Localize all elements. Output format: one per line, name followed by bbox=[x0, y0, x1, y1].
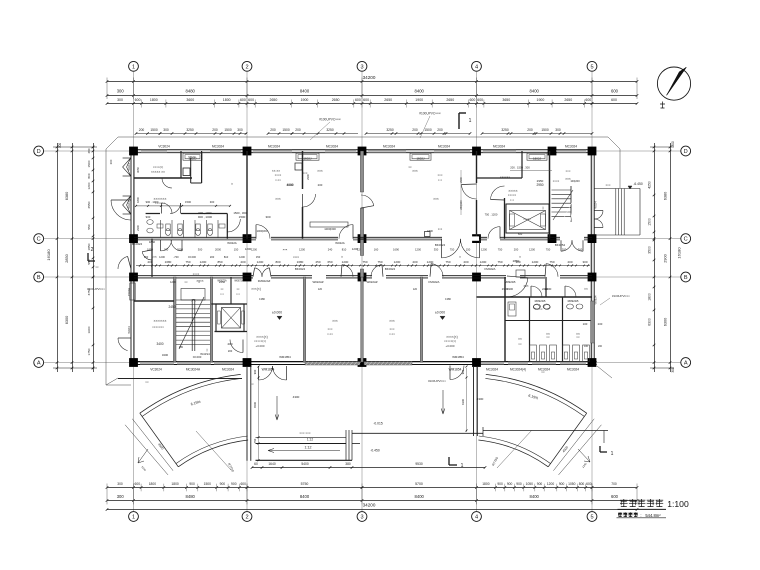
svg-text:××××: ×××× bbox=[275, 173, 282, 177]
svg-text:×.×: ×.× bbox=[236, 292, 240, 296]
svg-text:1500 , 300: 1500 , 300 bbox=[233, 211, 247, 215]
wc fixtures north-left bbox=[166, 224, 170, 231]
axis circle 5 bottom bbox=[587, 512, 597, 522]
svg-text:600: 600 bbox=[477, 98, 483, 102]
svg-text:×××××××: ××××××× bbox=[153, 319, 166, 323]
axis circle 2 top bbox=[242, 61, 252, 71]
wall x201 bbox=[201, 151, 203, 183]
svg-text:-0.450: -0.450 bbox=[370, 448, 380, 452]
svg-text:×××: ××× bbox=[389, 319, 395, 323]
svg-text:600: 600 bbox=[240, 98, 246, 102]
svg-text:1750: 1750 bbox=[87, 348, 91, 355]
svg-text:800: 800 bbox=[87, 173, 91, 178]
column (247,362) bbox=[243, 358, 252, 367]
svg-text:-6.450: -6.450 bbox=[633, 182, 643, 186]
left wall window 1502A bbox=[130, 283, 135, 300]
equipment washroom bbox=[516, 270, 525, 277]
door x476 wall bbox=[462, 185, 477, 200]
door left wall lower1 bbox=[118, 256, 128, 269]
column (592,239) bbox=[588, 234, 597, 243]
door B-wall room2 bbox=[371, 265, 382, 277]
svg-text:1000|300: 1000|300 bbox=[257, 229, 268, 233]
hatched sill wall A axis2-3 bbox=[305, 362, 360, 365]
svg-text:1380: 1380 bbox=[259, 297, 265, 301]
svg-text:1:12: 1:12 bbox=[307, 438, 313, 442]
svg-text:2850: 2850 bbox=[65, 254, 69, 262]
svg-text:MC3024: MC3024 bbox=[486, 367, 498, 371]
equipment box room2 bbox=[295, 163, 302, 170]
svg-text:2: 2 bbox=[245, 515, 248, 521]
svg-text:±0.000: ±0.000 bbox=[272, 311, 282, 315]
svg-text:900 , 1000: 900 , 1000 bbox=[198, 211, 212, 215]
svg-text:2550: 2550 bbox=[87, 201, 91, 208]
wall x546 bbox=[545, 277, 547, 297]
louvre box 1502J bbox=[183, 153, 202, 160]
svg-text:W024: W024 bbox=[127, 201, 131, 209]
axis circle A left bbox=[34, 358, 44, 368]
svg-text:W0872A: W0872A bbox=[234, 280, 244, 283]
svg-text:D: D bbox=[684, 149, 688, 155]
svg-text:1500: 1500 bbox=[648, 218, 652, 226]
svg-text:200: 200 bbox=[463, 260, 468, 264]
podium meeting room bbox=[310, 222, 348, 227]
svg-text:W022A#: W022A# bbox=[312, 280, 323, 284]
svg-text:××: ×× bbox=[250, 382, 254, 386]
svg-text:750: 750 bbox=[450, 248, 455, 252]
level +0.000 right bbox=[438, 316, 443, 320]
svg-text:1050: 1050 bbox=[526, 482, 534, 486]
svg-text:100: 100 bbox=[584, 345, 589, 348]
south door axis2-3 leaf1 bbox=[259, 366, 273, 380]
svg-text:×××: ××× bbox=[283, 248, 288, 252]
svg-text:3250: 3250 bbox=[326, 128, 334, 132]
svg-text::: : bbox=[640, 513, 641, 518]
svg-text:W022A: W022A bbox=[227, 241, 237, 245]
svg-text:300: 300 bbox=[109, 159, 113, 164]
title underline bbox=[618, 508, 667, 510]
svg-text:WM1854: WM1854 bbox=[449, 367, 462, 371]
svg-text:4: 4 bbox=[475, 64, 478, 70]
column (592,151) bbox=[588, 147, 597, 156]
svg-text:60: 60 bbox=[254, 462, 258, 466]
svg-text:4000: 4000 bbox=[287, 183, 294, 187]
svg-text:3400: 3400 bbox=[162, 353, 169, 357]
wc basins left bbox=[147, 220, 153, 225]
shaft wall x190 bbox=[190, 158, 192, 183]
svg-text:300: 300 bbox=[117, 98, 123, 102]
svg-text:MC3024: MC3024 bbox=[565, 145, 577, 149]
svg-text:×××: ××× bbox=[389, 327, 394, 331]
svg-text:600: 600 bbox=[240, 482, 246, 486]
axis circle 1 bottom bbox=[129, 512, 139, 522]
svg-text:380: 380 bbox=[345, 462, 351, 466]
ramp 1:12 bbox=[256, 436, 347, 438]
svg-text:4300: 4300 bbox=[293, 395, 300, 399]
svg-text:1502J: 1502J bbox=[533, 156, 541, 160]
bay1 corridor door leaf1 bbox=[161, 240, 172, 251]
svg-text:×.×: ×.× bbox=[220, 292, 224, 296]
east door leaf1 bbox=[595, 211, 604, 220]
svg-text:BK0324: BK0324 bbox=[435, 243, 446, 247]
svg-text:#100UPVC××: #100UPVC×× bbox=[612, 294, 630, 298]
svg-text:1200: 1200 bbox=[481, 248, 487, 252]
svg-text:1200: 1200 bbox=[394, 260, 401, 264]
svg-text:××: ×× bbox=[145, 380, 149, 384]
svg-text:D: D bbox=[37, 149, 41, 155]
svg-text:16180: 16180 bbox=[677, 247, 682, 259]
svg-text:2200: 2200 bbox=[542, 287, 548, 291]
column (362,362) bbox=[358, 358, 367, 367]
svg-text:W022A#: W022A# bbox=[366, 280, 377, 284]
svg-text:350: 350 bbox=[434, 248, 439, 252]
svg-text:1800: 1800 bbox=[427, 229, 433, 233]
svg-text:5750: 5750 bbox=[301, 482, 309, 486]
stair bay door leaf2 bbox=[572, 240, 583, 251]
door B-wall room3 bbox=[431, 264, 443, 277]
door left wall wc bbox=[111, 200, 131, 220]
wall x302 upper bbox=[302, 151, 304, 189]
svg-text:BK0324: BK0324 bbox=[295, 267, 306, 271]
svg-text:××× ×××: ××× ××× bbox=[299, 431, 311, 435]
svg-text:FM022A: FM022A bbox=[485, 267, 496, 271]
svg-text:1200: 1200 bbox=[480, 260, 487, 264]
svg-text:2450: 2450 bbox=[219, 280, 226, 284]
axis circle 4 top bbox=[472, 61, 482, 71]
svg-text:120: 120 bbox=[413, 288, 418, 291]
column (247,239) bbox=[243, 234, 252, 243]
svg-text:#100UPVC×××: #100UPVC××× bbox=[319, 118, 341, 122]
door x302 wall bbox=[303, 194, 316, 207]
svg-text:2650: 2650 bbox=[270, 98, 278, 102]
wall x231 small rooms bbox=[230, 277, 232, 304]
bay1 corridor door leaf2 bbox=[171, 240, 182, 251]
svg-text:1: 1 bbox=[132, 64, 135, 70]
svg-text:2950: 2950 bbox=[536, 183, 543, 187]
svg-text:900 , 1000: 900 , 1000 bbox=[198, 215, 213, 219]
section mark 2 left bbox=[87, 253, 89, 261]
section mark 1 top bbox=[458, 113, 460, 129]
door B-wall toilet bbox=[546, 264, 558, 277]
top secondary dimension row bbox=[136, 133, 247, 135]
svg-text:1690: 1690 bbox=[393, 248, 399, 252]
hatched wall x421 bbox=[420, 277, 423, 362]
stair bay wall x549 bbox=[549, 151, 551, 239]
north needle bbox=[667, 67, 687, 95]
porch right dim column bbox=[466, 368, 468, 432]
axis circle B left bbox=[34, 272, 44, 282]
drain arrows bbox=[275, 396, 279, 420]
wall x562 bbox=[562, 297, 564, 362]
svg-text:200: 200 bbox=[437, 128, 443, 132]
svg-text:8400: 8400 bbox=[530, 494, 540, 499]
svg-text:×: × bbox=[459, 255, 461, 259]
south door axis2-3 leaf2 bbox=[273, 366, 287, 380]
svg-text:650: 650 bbox=[327, 260, 332, 264]
axis circle 5 top bbox=[587, 61, 597, 71]
svg-text:6380: 6380 bbox=[664, 192, 668, 200]
svg-text:1500: 1500 bbox=[541, 128, 549, 132]
svg-text:1500: 1500 bbox=[424, 128, 432, 132]
svg-text:××: ×× bbox=[518, 342, 522, 346]
door below elevator bbox=[230, 340, 243, 353]
svg-text:600: 600 bbox=[363, 98, 369, 102]
equipment box hall bbox=[425, 232, 431, 237]
small room door bbox=[142, 252, 152, 260]
svg-text:×××: ××× bbox=[537, 307, 542, 311]
left wall casement window D-C1 bbox=[123, 158, 131, 176]
svg-text:600: 600 bbox=[135, 98, 141, 102]
svg-text:750: 750 bbox=[546, 248, 551, 252]
svg-text:×××: ××× bbox=[605, 183, 610, 187]
svg-text:6300: 6300 bbox=[65, 316, 69, 324]
svg-text:××××× ××: ××××× ×× bbox=[151, 170, 165, 174]
toilet wall y297 bbox=[477, 296, 593, 298]
svg-text:300: 300 bbox=[582, 260, 587, 264]
svg-text:600: 600 bbox=[611, 98, 617, 102]
svg-text:1640: 1640 bbox=[268, 462, 276, 466]
level mark -6.450 bbox=[628, 186, 632, 189]
svg-text:200: 200 bbox=[412, 128, 418, 132]
column (476,362) bbox=[472, 358, 481, 367]
svg-text:600: 600 bbox=[585, 98, 591, 102]
column (134,277) bbox=[129, 273, 138, 282]
svg-text:750: 750 bbox=[377, 260, 382, 264]
wc cubicle dividers top-left bbox=[160, 220, 162, 238]
column (247,277) bbox=[243, 273, 252, 282]
svg-text:480: 480 bbox=[87, 148, 91, 153]
svg-text:800: 800 bbox=[275, 260, 280, 264]
shaft wall y183 bbox=[191, 182, 202, 184]
R7750 leader left bbox=[196, 431, 231, 470]
svg-text:MC3024: MC3024 bbox=[567, 367, 579, 371]
svg-text:×××: ××× bbox=[317, 169, 323, 173]
svg-text:8400: 8400 bbox=[415, 89, 425, 94]
svg-text:+0.000: +0.000 bbox=[446, 344, 455, 348]
svg-text:1200: 1200 bbox=[415, 248, 421, 252]
svg-text:×××: ××× bbox=[433, 197, 439, 201]
wash basins bbox=[534, 304, 541, 309]
svg-text:120: 120 bbox=[318, 288, 323, 291]
svg-text:3250: 3250 bbox=[501, 128, 509, 132]
column (362,239) bbox=[358, 234, 367, 243]
svg-text:1: 1 bbox=[611, 451, 614, 457]
door x504 wall bbox=[491, 186, 505, 200]
svg-text:3500: 3500 bbox=[648, 246, 652, 254]
corridor crossing wall axis3 bbox=[360, 240, 363, 256]
svg-text:1200: 1200 bbox=[170, 280, 176, 284]
svg-text:2300: 2300 bbox=[136, 225, 140, 231]
svg-text:600: 600 bbox=[586, 482, 592, 486]
svg-text:200: 200 bbox=[270, 128, 276, 132]
svg-text:M0921B: M0921B bbox=[535, 299, 546, 303]
svg-text:750: 750 bbox=[253, 438, 257, 443]
left curved terrace bbox=[140, 374, 241, 413]
svg-text:×××××: ××××× bbox=[523, 217, 531, 221]
svg-text:3650: 3650 bbox=[502, 98, 510, 102]
left dimension columns bbox=[57, 143, 59, 372]
svg-text:300: 300 bbox=[237, 128, 243, 132]
svg-text:MC3024: MC3024 bbox=[326, 145, 338, 149]
svg-text:BK0324: BK0324 bbox=[385, 267, 396, 271]
wall y178 left rooms bbox=[134, 177, 192, 179]
svg-text:×: × bbox=[519, 255, 521, 259]
svg-text:M0921B: M0921B bbox=[568, 299, 579, 303]
svg-text:×g××: ×g×× bbox=[196, 279, 203, 283]
axis circle 3 top bbox=[357, 61, 367, 71]
porch right wall bbox=[473, 366, 475, 436]
hatch strokes bbox=[306, 362, 309, 365]
svg-text:×.××: ×.×× bbox=[275, 178, 281, 182]
svg-text:×××××(×): ×××××(×) bbox=[254, 339, 266, 343]
column (134,151) bbox=[129, 147, 138, 156]
svg-text:900: 900 bbox=[559, 482, 565, 486]
left wall casement window D-C2 bbox=[123, 196, 131, 214]
svg-text:700: 700 bbox=[611, 482, 617, 486]
svg-text:1680: 1680 bbox=[165, 260, 172, 264]
porch dim column bbox=[258, 368, 260, 460]
svg-text:1200: 1200 bbox=[251, 248, 257, 252]
svg-text:1000|300: 1000|300 bbox=[324, 227, 336, 231]
ramp arrow 1:12 bbox=[268, 449, 340, 453]
svg-text:16180: 16180 bbox=[46, 249, 51, 261]
svg-text:4250: 4250 bbox=[648, 181, 652, 189]
svg-text:#100UPVC××: #100UPVC×× bbox=[87, 287, 105, 291]
wall x302 lower bbox=[302, 207, 304, 239]
axis circle C right bbox=[681, 234, 691, 244]
wc dim line bbox=[136, 205, 230, 207]
svg-text:1380: 1380 bbox=[445, 297, 451, 301]
svg-text:3400: 3400 bbox=[156, 342, 163, 346]
svg-text:2850: 2850 bbox=[513, 259, 520, 263]
exterior wall bottom bbox=[131, 361, 597, 363]
column (476,151) bbox=[472, 147, 481, 156]
svg-text:200: 200 bbox=[240, 260, 245, 264]
svg-text:900: 900 bbox=[507, 482, 513, 486]
svg-text:1800: 1800 bbox=[482, 482, 490, 486]
svg-text:750: 750 bbox=[549, 260, 554, 264]
svg-text:××: ×× bbox=[584, 287, 588, 291]
svg-text:×.××: ×.×× bbox=[389, 332, 395, 336]
svg-text:FM022A#: FM022A# bbox=[258, 279, 271, 283]
svg-text:×: × bbox=[341, 255, 343, 259]
svg-text:200: 200 bbox=[527, 128, 533, 132]
stair landing bbox=[181, 289, 205, 301]
svg-text:600: 600 bbox=[469, 98, 475, 102]
svg-text:W024: W024 bbox=[127, 163, 131, 171]
door B-wall double left leaf bbox=[255, 268, 262, 277]
svg-text:1800: 1800 bbox=[171, 482, 179, 486]
svg-text:WM1854: WM1854 bbox=[279, 355, 291, 359]
corridor south wall (B) bbox=[134, 274, 592, 276]
svg-text:300: 300 bbox=[117, 494, 125, 499]
svg-text:×: × bbox=[231, 182, 233, 186]
column (134,362) bbox=[129, 358, 138, 367]
svg-text:±0.000: ±0.000 bbox=[188, 255, 196, 259]
svg-text:200: 200 bbox=[228, 349, 233, 353]
svg-text:100|200: 100|200 bbox=[570, 179, 580, 183]
svg-text:1900: 1900 bbox=[537, 98, 545, 102]
svg-text:×××: ××× bbox=[275, 197, 281, 201]
svg-text:150: 150 bbox=[256, 255, 261, 259]
svg-text:3600: 3600 bbox=[186, 98, 194, 102]
column (552,151) bbox=[548, 147, 557, 156]
svg-text:900: 900 bbox=[516, 482, 522, 486]
svg-text:8400: 8400 bbox=[300, 89, 310, 94]
door left wall lower2 bbox=[118, 338, 128, 351]
svg-text:3: 3 bbox=[360, 64, 363, 70]
svg-text:2000: 2000 bbox=[215, 248, 221, 252]
svg-text:VC3024: VC3024 bbox=[150, 367, 162, 371]
svg-text:+0.000: +0.000 bbox=[256, 344, 265, 348]
svg-text:VD2A: VD2A bbox=[188, 155, 196, 159]
svg-text:34200: 34200 bbox=[363, 503, 376, 508]
svg-text:W41S4: W41S4 bbox=[200, 352, 210, 356]
right staircase bbox=[552, 189, 572, 191]
svg-text:×××: ××× bbox=[151, 255, 157, 259]
svg-text:150: 150 bbox=[234, 248, 239, 252]
svg-text:2650: 2650 bbox=[332, 98, 340, 102]
svg-text:×××××××: ××××××× bbox=[152, 325, 164, 329]
axis circle 4 bottom bbox=[472, 512, 482, 522]
exterior wall right bbox=[590, 151, 592, 363]
door B-wall room1 bbox=[342, 265, 353, 277]
column (592,277) bbox=[588, 273, 597, 282]
door B-wall double right leaf bbox=[262, 268, 269, 277]
svg-text:600: 600 bbox=[248, 98, 254, 102]
svg-text:200 . 1500 . 300: 200 . 1500 . 300 bbox=[510, 166, 530, 170]
svg-text:1200: 1200 bbox=[427, 260, 434, 264]
svg-text:4500: 4500 bbox=[253, 402, 257, 408]
svg-text:810: 810 bbox=[224, 255, 229, 259]
svg-text:#100UPVC××: #100UPVC×× bbox=[428, 379, 446, 383]
svg-text:1: 1 bbox=[461, 463, 464, 469]
right walkway edge bbox=[483, 430, 608, 432]
svg-text:3250: 3250 bbox=[186, 128, 194, 132]
R7750 leader right bbox=[497, 430, 532, 468]
svg-text:×x×: ×x× bbox=[523, 284, 528, 288]
svg-text:200: 200 bbox=[295, 128, 301, 132]
east door leaf2 bbox=[595, 219, 604, 228]
svg-text:2: 2 bbox=[91, 247, 94, 253]
exterior wall left bbox=[130, 151, 132, 363]
svg-text:W022A: W022A bbox=[335, 241, 345, 245]
svg-text:W024: W024 bbox=[127, 326, 131, 334]
axis circle 3 bottom bbox=[357, 512, 367, 522]
svg-text:800: 800 bbox=[579, 482, 585, 486]
svg-text:300: 300 bbox=[265, 215, 270, 219]
corridor dimension line bbox=[136, 265, 590, 267]
stair west wall bbox=[173, 277, 176, 362]
door top-left room bbox=[162, 178, 172, 188]
axis circle B right bbox=[681, 272, 691, 282]
svg-text:1200: 1200 bbox=[200, 260, 207, 264]
svg-text:150: 150 bbox=[466, 248, 471, 252]
svg-text:1680: 1680 bbox=[297, 260, 304, 264]
svg-text:1500: 1500 bbox=[87, 160, 91, 167]
column (552,239) bbox=[548, 234, 557, 243]
svg-text:850: 850 bbox=[217, 260, 222, 264]
wall x247 D-C bbox=[246, 151, 248, 239]
svg-text:300: 300 bbox=[163, 128, 169, 132]
svg-text:4: 4 bbox=[475, 515, 478, 521]
wall x522 bbox=[521, 151, 523, 178]
axis grid lines bbox=[44, 71, 681, 511]
canopy outline bbox=[118, 136, 608, 138]
svg-text:1900: 1900 bbox=[507, 287, 513, 291]
svg-text:×.×: ×.× bbox=[510, 198, 514, 202]
door C-wall double leaf1 bbox=[442, 239, 461, 258]
door C-wall room4 bbox=[488, 227, 500, 239]
